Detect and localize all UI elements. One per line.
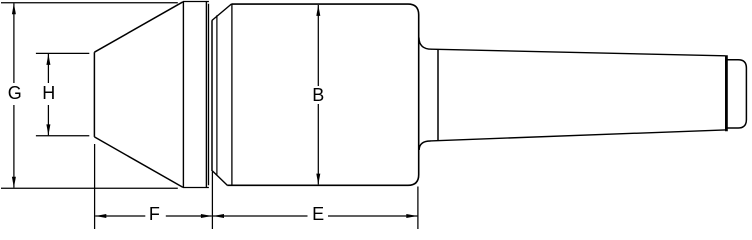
svg-text:G: G	[8, 83, 22, 103]
svg-text:B: B	[312, 85, 324, 105]
svg-text:F: F	[149, 204, 160, 224]
svg-text:H: H	[42, 83, 55, 103]
svg-text:E: E	[312, 204, 324, 224]
